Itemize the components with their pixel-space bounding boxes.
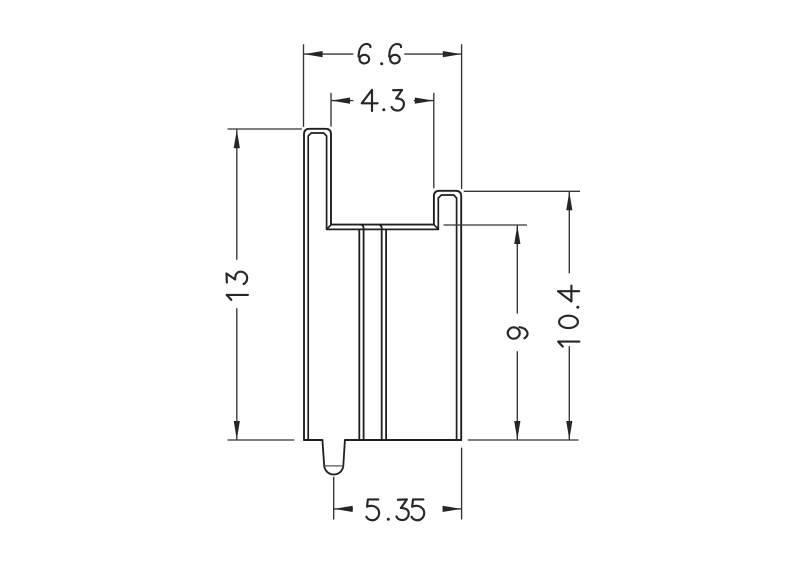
shared bottom-right extension line [468, 439, 579, 441]
slot wall line 4 [385, 229, 387, 440]
dimension 4.3 text [362, 90, 404, 111]
floor bottom line [327, 228, 439, 230]
dimension 13 line [236, 129, 238, 440]
dimension 4.3 extension line left [330, 93, 332, 127]
dimension 10.4 arrow bottom [566, 421, 572, 440]
bottom edge left segment [304, 439, 322, 441]
dimension 13 arrow top [234, 130, 240, 149]
dimension 6.6 text [359, 44, 401, 65]
dimension 10.4 text [558, 286, 579, 347]
dimension 5.35 arrow right [443, 506, 462, 512]
dimension 13 extension line bottom [228, 439, 295, 441]
left wall inner fillet contour [308, 133, 326, 440]
dimension 10.4 line [568, 191, 570, 440]
dimension 6.6 arrow left [304, 51, 323, 57]
dimension 6.6 arrow right [443, 51, 462, 57]
dimension 9 line [516, 225, 518, 440]
dimension 13 text [227, 272, 248, 300]
dimension 4.3 extension line right [433, 93, 435, 189]
dimension 4.3 arrow right [415, 98, 434, 104]
pin tip chord [324, 465, 343, 467]
dimension 6.6 extension line left [303, 44, 305, 127]
dimension 5.35 text [366, 499, 424, 520]
dimension 5.35 line [334, 508, 462, 510]
dimension 13 extension line top [228, 128, 302, 130]
dimension 5.35 arrow left [334, 506, 353, 512]
dimension 4.3 arrow left [331, 98, 350, 104]
slot wall line 3 with top fillet [379, 225, 382, 440]
right wall inner fillet contour [438, 195, 456, 440]
dimension 4.3 line [331, 100, 434, 102]
slot wall line 1 [358, 229, 360, 440]
bottom edge right segment [345, 439, 461, 441]
right wall outer contour [434, 191, 461, 440]
dimension 9 extension line top [444, 224, 528, 226]
dimension 6.6 line [304, 53, 462, 55]
floor-left bevel [327, 225, 332, 230]
slot wall line 2 with top fillet [361, 225, 364, 440]
dimension 10.4 arrow top [566, 192, 572, 211]
dimension 10.4 extension line top [464, 190, 580, 192]
floor top line [331, 224, 434, 226]
dimension 5.35 extension line right [461, 448, 463, 520]
dimension 9 arrow bottom [514, 421, 520, 440]
dimension 9 text [508, 327, 528, 339]
dimension 9 arrow top [514, 225, 520, 244]
pin outline [322, 440, 345, 475]
dimension 5.35 extension line left [333, 477, 335, 520]
dimension 13 arrow bottom [234, 421, 240, 440]
left wall outer contour [304, 129, 331, 440]
dimension 6.6 extension line right [461, 44, 463, 189]
floor-right bevel [434, 225, 439, 230]
